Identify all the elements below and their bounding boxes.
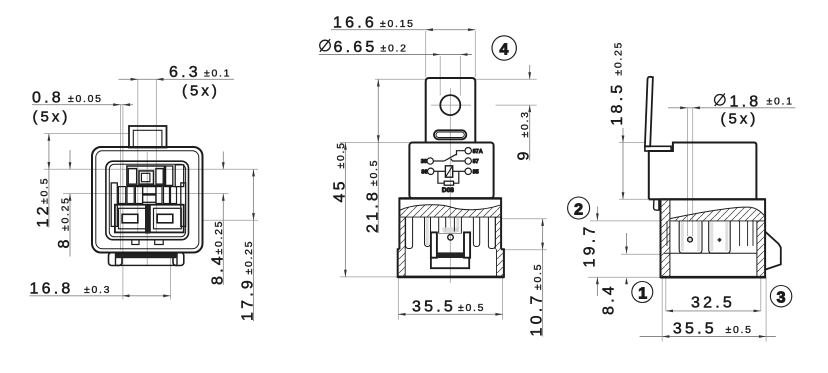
svg-text:±0.25: ±0.25 — [613, 41, 625, 76]
svg-text:(5x): (5x) — [33, 109, 71, 126]
base bottom thick — [661, 276, 767, 279]
top slot right1 — [156, 169, 163, 185]
extension line horizontal y133.6 tab top — [44, 133, 130, 135]
svg-text:2: 2 — [574, 201, 583, 218]
top slot right3 — [175, 165, 184, 187]
base skirt — [398, 249, 504, 277]
left wall band hatch — [661, 199, 670, 277]
channel A shading — [681, 222, 684, 251]
extension 6.65 left — [439, 56, 441, 96]
cover bottom / base top thick line — [649, 198, 765, 200]
extension 19.7 top (hatch bottom) — [590, 220, 661, 222]
hatch band bottom line — [399, 216, 501, 218]
bottom inner tab left — [132, 240, 139, 245]
svg-text:35.5: 35.5 — [673, 320, 717, 337]
channel B shading — [710, 222, 713, 251]
svg-text:±0.5: ±0.5 — [458, 302, 485, 314]
U bracket right arm — [464, 232, 470, 257]
channel A — [679, 221, 702, 253]
extension line 16.8 right — [169, 252, 171, 300]
comb bar L2 — [127, 187, 134, 204]
dim 1.8 — [668, 107, 796, 109]
latch — [765, 232, 781, 270]
svg-text:32.5: 32.5 — [691, 295, 735, 312]
schematic: resistor R1 parallel — [438, 171, 444, 183]
svg-text:±0.1: ±0.1 — [767, 96, 794, 108]
dim 19.7 — [596, 207, 598, 221]
svg-text:±0.25: ±0.25 — [60, 196, 72, 231]
extension 6.65 right — [459, 56, 461, 96]
extension 35.5 left — [397, 278, 399, 320]
svg-text:85: 85 — [473, 169, 479, 175]
balloon 1 — [632, 282, 653, 303]
top slot assembly frame — [127, 166, 164, 185]
schematic: wire coil to 85 — [453, 170, 465, 172]
dim 8 line — [69, 150, 71, 169]
extension line horizontal y220.3 — [203, 219, 258, 221]
svg-text:6.65: 6.65 — [334, 39, 378, 56]
bracket flange — [645, 146, 671, 151]
balloon 4 — [492, 36, 516, 60]
svg-text:4: 4 — [500, 42, 509, 59]
left wall inner line + hatch — [404, 217, 406, 249]
bottom mount tab left — [109, 253, 123, 266]
extension 35.5 right — [765, 278, 767, 342]
right vertical bar — [181, 183, 186, 227]
svg-text:86: 86 — [421, 169, 427, 175]
dim 16.6 — [331, 29, 475, 31]
dim 21.8 — [377, 79, 379, 233]
svg-text:9: 9 — [516, 148, 533, 160]
top slot left — [128, 169, 136, 185]
svg-text:±0.5: ±0.5 — [368, 159, 380, 186]
svg-text:±0.3: ±0.3 — [84, 284, 111, 296]
svg-text:±0.3: ±0.3 — [519, 110, 531, 137]
center stack upper — [143, 187, 156, 194]
extension 10.7 top — [501, 218, 547, 220]
svg-text:3: 3 — [777, 290, 786, 307]
bottom mount tab right — [173, 253, 184, 266]
inner wall right line (32.5 ext) — [756, 221, 758, 277]
channel B — [425, 218, 431, 247]
bottom center bar dark band — [116, 254, 178, 258]
dim 6.3 line — [119, 78, 235, 80]
top tab inner — [133, 130, 162, 147]
extension 8.4 top (skirt step) — [621, 253, 661, 255]
hatch band with wavy top — [399, 205, 501, 217]
dim 10.7 — [542, 219, 544, 337]
schematic: wire 30 to pivot — [433, 160, 444, 162]
dim 45 — [344, 143, 346, 277]
comb bar R3 — [171, 187, 177, 204]
svg-text:8.4: 8.4 — [601, 283, 618, 315]
svg-text:19.7: 19.7 — [581, 224, 598, 268]
schematic: wire 86 to coil — [434, 170, 446, 172]
U bracket tray — [431, 258, 469, 269]
dim 0.8 line — [32, 104, 133, 106]
svg-text:8.4: 8.4 — [209, 253, 226, 285]
svg-text:17.9: 17.9 — [240, 277, 257, 321]
extension 35.5 right — [502, 278, 504, 320]
centerline vertical — [449, 88, 451, 283]
svg-text:30: 30 — [421, 159, 427, 165]
channel D — [453, 218, 455, 232]
svg-text:87: 87 — [473, 159, 479, 165]
left vertical bar — [111, 183, 117, 227]
top slot center inner — [141, 173, 150, 181]
terminal block left outer — [115, 205, 149, 233]
extension 16.6 left — [425, 31, 427, 77]
comb bar R1 — [156, 187, 162, 204]
center stack lower — [143, 195, 156, 202]
schematic: wire 87 stub — [451, 159, 465, 161]
channel C — [739, 221, 741, 246]
svg-text:±0.25: ±0.25 — [243, 240, 255, 275]
channel 0 — [666, 221, 668, 246]
bottom center bar — [116, 254, 178, 265]
center divider — [145, 205, 150, 234]
top hatch band — [670, 207, 765, 221]
centerline vertical — [146, 152, 148, 265]
svg-text:21.8: 21.8 — [364, 189, 381, 233]
top slot center outer — [139, 171, 154, 184]
svg-text:35.5: 35.5 — [412, 299, 456, 316]
extension 18.5 top (cover top) — [619, 142, 645, 144]
svg-text:±0.5: ±0.5 — [532, 263, 544, 290]
pin 2 end diamond — [717, 238, 722, 243]
bracket oval slot inner — [436, 132, 464, 137]
channel E — [473, 218, 479, 247]
top slot right2 — [166, 166, 173, 185]
skirt corner hatch left — [398, 249, 406, 277]
extension 19.7 bottom (base bottom) — [588, 276, 661, 278]
schematic: switch blade — [444, 154, 456, 161]
dim 16.8 line — [30, 295, 172, 297]
channel A — [406, 218, 413, 249]
balloon 2 — [568, 197, 590, 219]
svg-text:16.6: 16.6 — [333, 15, 377, 32]
relay cover — [409, 143, 493, 199]
svg-text:6.3: 6.3 — [169, 64, 201, 81]
construction line vertical 6.3 left — [137, 79, 139, 232]
dim 12 text — [35, 177, 52, 228]
schematic: terminal 87 — [465, 158, 471, 164]
channel C — [438, 218, 440, 234]
top tab outer — [129, 126, 167, 148]
bracket hole — [440, 95, 460, 115]
mounting bracket — [426, 78, 476, 143]
base body — [661, 199, 766, 277]
channel D pin shading — [456, 218, 459, 232]
extension 45 top (cover top) — [340, 142, 410, 144]
extension 10.7 bottom — [504, 249, 547, 251]
base top edge thick — [399, 197, 501, 199]
terminal block right slot — [157, 214, 173, 223]
extension 45 bottom (base bottom) — [340, 276, 398, 278]
comb bar L1 — [119, 187, 126, 204]
extension 1.8 right pin line — [692, 108, 694, 236]
dim 8.4 line (right) — [222, 152, 224, 170]
schematic: coil K1 — [445, 166, 452, 177]
base bottom edge thick — [398, 276, 504, 279]
base upper — [399, 198, 501, 249]
svg-text:±0.5: ±0.5 — [38, 177, 50, 204]
hook under cover left — [654, 199, 659, 210]
svg-text:±0.05: ±0.05 — [68, 93, 103, 105]
balloon 3 — [770, 286, 791, 307]
hole crosshair horizontal — [431, 104, 471, 106]
shelf line — [664, 252, 757, 254]
construction line vertical 6.3 right — [155, 79, 157, 232]
schematic: terminal 86 — [428, 168, 434, 174]
svg-text:±0.5: ±0.5 — [726, 324, 753, 336]
dim 17.9 text — [240, 240, 257, 321]
terminal block right inner — [154, 208, 182, 229]
extension 9 dim upper (bracket top right) — [475, 78, 537, 80]
extension 35.5 left — [661, 278, 663, 342]
pin hole circle — [448, 235, 454, 241]
skirt corner hatch right — [497, 249, 504, 277]
svg-text:16.8: 16.8 — [30, 281, 74, 298]
svg-text:1: 1 — [638, 285, 647, 302]
extension 1.8 left pin line — [686, 108, 688, 236]
svg-text:±0.2: ±0.2 — [381, 43, 408, 55]
extension 21.8 upper (bracket top left) — [375, 78, 426, 80]
wavy line — [670, 207, 765, 218]
svg-text:(5x): (5x) — [182, 83, 220, 100]
comb bar R2 — [164, 187, 170, 204]
dim 18.5 — [622, 128, 624, 199]
extension line horizontal y193.6 — [63, 193, 229, 195]
schematic: terminal 30 — [427, 158, 433, 164]
extension 16.6 right — [474, 31, 476, 77]
dim 32.5 — [666, 310, 761, 312]
dim 8 text — [56, 196, 73, 248]
extension 32.5 left — [665, 278, 667, 311]
schematic: terminal 87A — [465, 148, 471, 154]
svg-text:0.8: 0.8 — [32, 90, 64, 107]
construction line vertical 0.8 left — [119, 105, 121, 250]
right wall inner line + hatch — [494, 217, 496, 249]
U bracket bottom bar — [437, 252, 464, 258]
extension 9 lower (hole center) — [496, 104, 537, 106]
body outer shell — [92, 147, 203, 253]
svg-text:12: 12 — [35, 203, 52, 227]
svg-text:1.8: 1.8 — [730, 93, 762, 110]
terminal block left inner — [119, 208, 147, 229]
svg-text:18.5: 18.5 — [609, 82, 626, 126]
dim 9 — [529, 65, 531, 79]
bracket oval slot outer — [434, 130, 466, 139]
center channel shading — [442, 228, 459, 234]
channel B pin shading — [426, 218, 429, 245]
pin 1 end (1.8 dia) — [688, 237, 693, 242]
dim 35.5 (side) — [640, 336, 776, 338]
channel F — [488, 218, 495, 249]
U bracket left arm — [431, 232, 437, 257]
extension line horizontal y169 — [44, 168, 258, 170]
dim 12 line — [48, 134, 50, 228]
svg-text:±0.1: ±0.1 — [204, 68, 231, 80]
dim 17.9 line — [253, 169, 255, 321]
svg-text:(5x): (5x) — [721, 111, 759, 128]
dim 8.4 (side) — [626, 233, 628, 254]
svg-text:8: 8 — [56, 236, 73, 248]
channel B — [709, 221, 731, 253]
inner wall inner line — [109, 164, 185, 237]
svg-text:±0.25: ±0.25 — [213, 220, 225, 255]
svg-text:10.7: 10.7 — [529, 293, 546, 337]
wavy line — [399, 205, 501, 211]
inner wall outer — [106, 161, 189, 240]
dim 35.5 (front) — [398, 313, 502, 315]
comb bar L3 — [135, 187, 142, 204]
terminal block left slot — [122, 214, 138, 223]
terminal block right outer — [150, 205, 184, 233]
bottom inner tab right — [155, 240, 164, 245]
svg-text:87A: 87A — [473, 149, 483, 155]
dim 6.65 — [319, 54, 472, 56]
svg-text:±0.5: ±0.5 — [335, 141, 347, 168]
hatch band bottom line — [670, 220, 765, 222]
dim 8.4 text — [209, 220, 226, 285]
dim 0.8 arrows — [113, 103, 120, 106]
svg-text:±0.15: ±0.15 — [380, 18, 415, 30]
schematic: terminal 85 — [465, 168, 471, 174]
construction line vertical 0.8 right / 16.8 left extension — [122, 105, 124, 300]
extension 18.5 bottom (base top) — [619, 198, 649, 200]
svg-text:D08: D08 — [442, 187, 454, 194]
bracket blade — [645, 77, 653, 147]
cover (side) — [649, 143, 757, 200]
body outer inner offset line — [96, 151, 199, 249]
schematic: wire 87A contact — [457, 151, 465, 156]
svg-text:45: 45 — [331, 178, 348, 202]
channel D — [752, 221, 754, 246]
dim 6.3 arrows — [131, 78, 138, 81]
right wall band hatch — [757, 221, 765, 277]
